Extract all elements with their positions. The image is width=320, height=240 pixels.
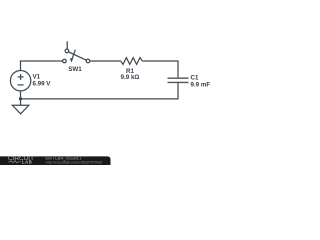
svg-text:V1: V1: [33, 73, 41, 80]
capacitor C1: [168, 78, 189, 82]
ground: [12, 99, 28, 114]
svg-text:http://circuitlab.com/c/8q9757: http://circuitlab.com/c/8q97576fa9: [46, 161, 103, 165]
wire top-left from V1 to switch: [21, 61, 63, 71]
svg-text:6.99 V: 6.99 V: [33, 80, 52, 87]
wire V1 bottom: [20, 91, 22, 99]
voltage source V1: [10, 71, 30, 91]
CircuitLab logo zigzag and LAB: [8, 160, 32, 165]
svg-text:9.9 mF: 9.9 mF: [191, 81, 211, 88]
footer bar: [0, 156, 111, 165]
resistor R1: [121, 58, 143, 65]
svg-text:SW1: SW1: [68, 66, 82, 73]
node junction at ground: [19, 97, 22, 100]
svg-text:9.9 kΩ: 9.9 kΩ: [121, 74, 140, 81]
wire capacitor to bottom rail: [21, 82, 179, 99]
svg-text:C1: C1: [191, 74, 199, 81]
svg-text:LAB: LAB: [22, 160, 33, 165]
switch SW1 arrowhead: [70, 58, 73, 63]
wire switch to resistor: [90, 60, 121, 62]
wire resistor to capacitor: [143, 61, 179, 78]
switch SW1: [63, 41, 90, 63]
